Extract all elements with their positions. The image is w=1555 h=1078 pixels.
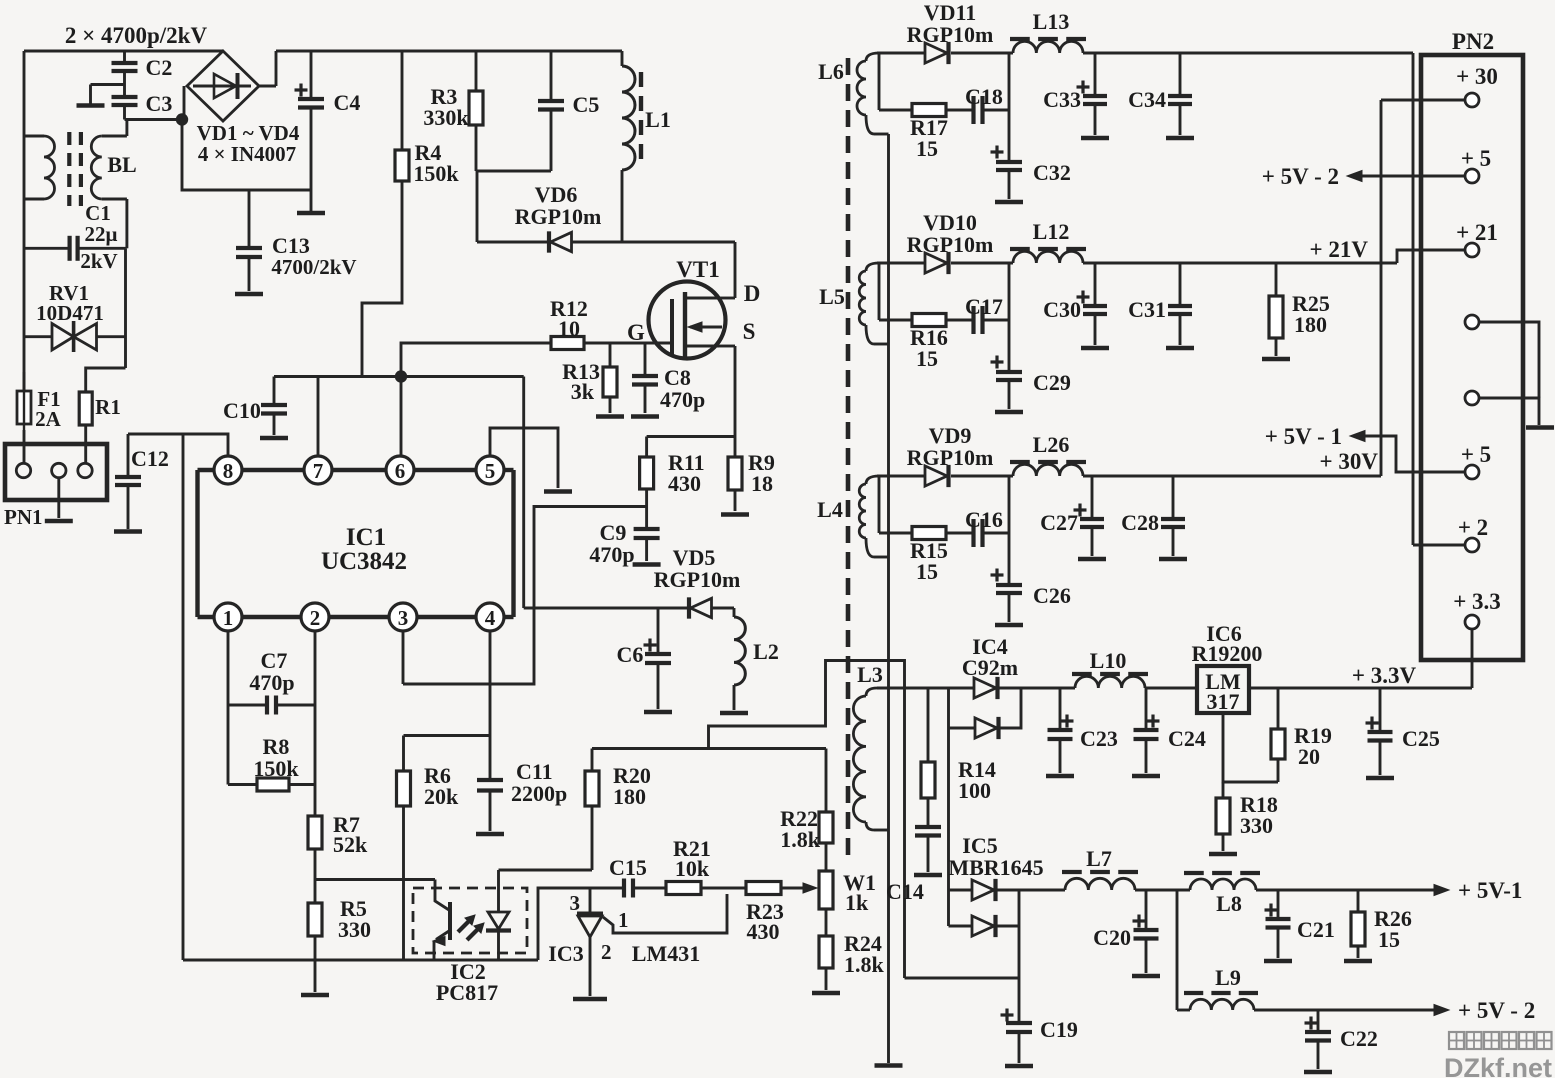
wire - rail2 +21V	[1083, 262, 1397, 265]
wire - hot ground rail	[183, 959, 538, 962]
terminal ground 1	[1465, 315, 1479, 329]
svg-text:+ 3.3: + 3.3	[1453, 589, 1501, 614]
pin 7	[304, 456, 332, 484]
capacitor C12	[127, 434, 130, 476]
diode VD9 RGP10m	[925, 466, 947, 486]
svg-text:5: 5	[485, 459, 496, 483]
resistor R23	[746, 882, 781, 895]
wire - left line rail	[23, 51, 26, 136]
svg-text:15: 15	[916, 559, 938, 584]
capacitor C28	[1172, 476, 1175, 519]
svg-text:180: 180	[613, 784, 646, 809]
capacitor C9	[634, 527, 660, 531]
capacitor C18 snubber	[971, 96, 975, 124]
inductor L2 aux winding	[733, 608, 736, 617]
inductor L12	[1010, 247, 1030, 251]
svg-text:330: 330	[338, 917, 371, 942]
svg-text:+ 2: + 2	[1458, 515, 1488, 540]
svg-text:4: 4	[485, 606, 496, 630]
svg-text:430: 430	[668, 471, 701, 496]
resistor R5	[308, 903, 322, 936]
capacitor C26 filter electrolytic	[991, 573, 1004, 576]
optocoupler IC2 PC817	[413, 888, 527, 953]
op-amp U1 - IC1 UC3842 box	[195, 470, 199, 617]
svg-text:3k: 3k	[571, 379, 595, 404]
svg-text:C26: C26	[1033, 583, 1071, 608]
resistor R25	[1275, 263, 1278, 296]
svg-text:+ 5V - 2: + 5V - 2	[1458, 998, 1535, 1023]
capacitor C25 electrolytic	[1379, 688, 1382, 732]
wire - +5V-1 output	[1256, 889, 1434, 892]
wire - +5V to C19 and divider feed	[905, 977, 1020, 980]
winding L6 secondary	[866, 53, 879, 61]
resistor R7	[314, 631, 317, 816]
winding L3 secondary	[866, 688, 877, 696]
svg-text:+ 5V - 2: + 5V - 2	[1262, 164, 1339, 189]
terminal ground 2	[1465, 391, 1479, 405]
diode VD10 RGP10m	[925, 253, 947, 273]
wire - LM317 adj	[1223, 713, 1278, 782]
capacitor C19 electrolytic	[1018, 978, 1021, 1023]
svg-text:7: 7	[313, 459, 324, 483]
svg-text:C24: C24	[1168, 726, 1206, 751]
svg-text:L12: L12	[1033, 219, 1070, 244]
svg-text:C92m: C92m	[962, 655, 1018, 680]
resistor R17 snubber	[878, 53, 881, 110]
diode VD5	[524, 607, 688, 610]
svg-text:317: 317	[1207, 689, 1240, 714]
svg-text:+ 3.3V: + 3.3V	[1352, 663, 1417, 688]
resistor R20	[591, 749, 594, 772]
wire - AC2 node to bridge	[125, 118, 183, 121]
diode VD6	[477, 241, 548, 244]
svg-text:C34: C34	[1128, 87, 1166, 112]
svg-text:IC3: IC3	[548, 941, 583, 966]
svg-text:C23: C23	[1080, 726, 1118, 751]
svg-text:L5: L5	[819, 284, 845, 309]
capacitor C8	[644, 343, 647, 375]
svg-text:PN2: PN2	[1452, 29, 1494, 54]
wire - rail1 to PN2	[1083, 52, 1413, 55]
svg-text:15: 15	[916, 136, 938, 161]
diode VD11 RGP10m	[925, 43, 947, 63]
capacitor C15	[622, 879, 626, 898]
wire - right line rail	[124, 248, 127, 368]
svg-text:10D471: 10D471	[36, 301, 104, 325]
resistor R12	[401, 343, 551, 377]
transistor VT1 MOSFET	[649, 282, 726, 359]
inductor L8	[1184, 871, 1204, 875]
svg-text:3: 3	[570, 891, 581, 915]
svg-text:D: D	[744, 281, 761, 306]
svg-text:L3: L3	[857, 662, 883, 687]
svg-text:150k: 150k	[253, 756, 299, 781]
svg-text:RGP10m: RGP10m	[654, 567, 741, 592]
svg-text:20k: 20k	[424, 784, 459, 809]
svg-text:18: 18	[751, 471, 773, 496]
svg-text:PC817: PC817	[436, 980, 498, 1005]
svg-text:C20: C20	[1093, 925, 1131, 950]
resistor R11	[645, 437, 648, 458]
transformer core dashed line	[846, 58, 851, 855]
svg-text:100: 100	[958, 778, 991, 803]
wire - source to R9/R11	[734, 346, 737, 437]
svg-text:R1: R1	[95, 395, 121, 419]
wire - Vref pin8	[128, 434, 228, 456]
svg-text:C12: C12	[131, 446, 169, 471]
capacitor C17 snubber	[971, 306, 975, 334]
svg-text:C29: C29	[1033, 370, 1071, 395]
wire - L6 output	[877, 52, 925, 55]
svg-text:+ 21V: + 21V	[1310, 237, 1369, 262]
resistor R3	[475, 51, 478, 91]
LED of optocoupler	[497, 870, 500, 912]
svg-text:470p: 470p	[660, 387, 705, 412]
capacitor C1	[125, 199, 128, 248]
svg-text:C4: C4	[334, 90, 361, 115]
svg-text:150k: 150k	[413, 161, 459, 186]
svg-text:2: 2	[310, 606, 321, 630]
pin 6	[386, 456, 414, 484]
svg-text:PN1: PN1	[4, 505, 43, 529]
svg-text:+ 21: + 21	[1456, 220, 1498, 245]
svg-text:4700/2kV: 4700/2kV	[271, 255, 356, 279]
wire - +5V-2 output	[1254, 1009, 1434, 1012]
connector PN1	[5, 444, 107, 500]
capacitor C33 electrolytic	[1094, 53, 1097, 96]
capacitor C32 filter electrolytic	[991, 150, 1004, 153]
resistor R16 snubber	[878, 263, 881, 320]
svg-text:+ 5V - 1: + 5V - 1	[1265, 424, 1342, 449]
svg-text:C15: C15	[609, 855, 647, 880]
wire - snubber to VD6	[476, 171, 479, 242]
svg-text:C28: C28	[1121, 510, 1159, 535]
svg-text:22μ: 22μ	[85, 222, 118, 246]
wire - snubber riser	[1008, 476, 1011, 585]
capacitor C6 electrolytic	[657, 608, 660, 653]
wire - collector wire from R7	[315, 878, 435, 881]
svg-text:DZkf.net: DZkf.net	[1444, 1053, 1552, 1078]
capacitor C2	[123, 51, 126, 62]
svg-text:RGP10m: RGP10m	[907, 22, 994, 47]
capacitor C16 snubber	[971, 519, 975, 547]
inductor L10	[1072, 672, 1092, 676]
wire - pin5 to ground	[490, 428, 558, 488]
svg-text:C21: C21	[1297, 917, 1335, 942]
inductor L7	[1062, 870, 1082, 874]
shunt regulator IC3 LM431	[589, 888, 592, 912]
diode IC4 second	[947, 688, 950, 926]
svg-text:4 × IN4007: 4 × IN4007	[198, 142, 296, 166]
wire - L3 output	[877, 687, 974, 690]
resistor R22	[825, 749, 828, 813]
svg-text:330: 330	[1240, 813, 1273, 838]
svg-text:R19200: R19200	[1192, 641, 1263, 666]
fuse F1	[23, 372, 26, 391]
svg-text:470p: 470p	[589, 542, 634, 567]
capacitor C14	[927, 798, 930, 827]
capacitor C34	[1179, 53, 1182, 96]
capacitor C20 electrolytic	[1145, 890, 1148, 930]
svg-text:+ 5: + 5	[1461, 442, 1491, 467]
svg-text:C19: C19	[1040, 1017, 1078, 1042]
svg-text:20: 20	[1298, 744, 1320, 769]
node - junction dot at bridge AC2	[176, 113, 188, 125]
wire - secondary common bus	[887, 134, 890, 1063]
wire - IC5 cathode riser	[1018, 890, 1021, 978]
wire - left ground drop	[182, 434, 185, 960]
svg-text:L7: L7	[1086, 846, 1112, 871]
svg-text:L2: L2	[753, 639, 779, 664]
svg-text:C33: C33	[1043, 87, 1081, 112]
svg-text:2A: 2A	[35, 407, 62, 431]
wire - snubber riser	[1008, 263, 1011, 372]
resistor R18	[1222, 782, 1225, 798]
svg-text:L13: L13	[1033, 9, 1070, 34]
svg-text:L10: L10	[1090, 648, 1127, 673]
wire - LED cathode to TL431	[538, 888, 624, 960]
svg-text:180: 180	[1294, 312, 1327, 337]
capacitor C4 electrolytic	[310, 51, 313, 98]
svg-text:C27: C27	[1040, 510, 1078, 535]
svg-text:15: 15	[1378, 927, 1400, 952]
pin 3	[389, 603, 417, 631]
svg-text:L26: L26	[1033, 432, 1070, 457]
svg-text:C25: C25	[1402, 726, 1440, 751]
resistor R26	[1357, 890, 1360, 912]
regulator IC6 LM317	[1197, 666, 1249, 713]
resistor R6	[402, 736, 405, 772]
potentiometer W1	[803, 883, 817, 893]
capacitor C21 electrolytic	[1277, 890, 1280, 919]
inductor L1 primary winding	[621, 51, 624, 66]
pin 4	[476, 603, 504, 631]
svg-text:10: 10	[558, 316, 580, 341]
resistor R13	[609, 343, 612, 367]
svg-text:8: 8	[223, 459, 234, 483]
inductor L26	[1010, 460, 1030, 464]
svg-text:470p: 470p	[249, 670, 294, 695]
pin 8	[214, 456, 242, 484]
svg-text:L9: L9	[1215, 965, 1241, 990]
wire - Vcc auxiliary riser	[522, 377, 525, 609]
svg-text:VT1: VT1	[676, 257, 719, 282]
svg-text:L1: L1	[645, 107, 671, 132]
svg-text:1.8k: 1.8k	[780, 827, 821, 852]
pin 2	[301, 603, 329, 631]
svg-text:S: S	[743, 319, 756, 344]
capacitor C24	[1145, 688, 1148, 730]
wire - L5 output	[877, 262, 925, 265]
svg-text:C30: C30	[1043, 297, 1081, 322]
wire - L4 output	[877, 475, 925, 478]
winding L5 secondary	[866, 263, 879, 271]
bridge rectifier VD1~VD4	[187, 51, 259, 121]
svg-text:L6: L6	[818, 59, 844, 84]
svg-text:430: 430	[747, 919, 780, 944]
svg-text:C16: C16	[965, 507, 1003, 532]
inductor L9	[1184, 991, 1203, 995]
svg-text:C3: C3	[146, 91, 173, 116]
svg-text:C17: C17	[965, 294, 1003, 319]
svg-text:10k: 10k	[675, 856, 710, 881]
earth stub of C2/C3 midpoint	[91, 83, 125, 86]
capacitor C23 electrolytic	[1059, 688, 1062, 730]
svg-text:+ 30: + 30	[1456, 64, 1498, 89]
svg-text:C10: C10	[223, 398, 261, 423]
capacitor C27 electrolytic	[1091, 476, 1094, 519]
svg-text:52k: 52k	[333, 832, 368, 857]
resistor R1	[86, 368, 126, 392]
wire - rail3 +30V	[1083, 475, 1381, 478]
svg-text:1: 1	[223, 606, 234, 630]
resistor R4	[401, 51, 404, 150]
svg-text:LM431: LM431	[632, 941, 700, 966]
svg-text:+ 30V: + 30V	[1320, 449, 1379, 474]
resistor R8	[257, 778, 289, 791]
capacitor C31	[1179, 263, 1182, 306]
winding L4 secondary	[866, 476, 879, 484]
svg-text:L8: L8	[1216, 891, 1242, 916]
pin 5	[476, 456, 504, 484]
svg-text:2kV: 2kV	[80, 249, 117, 273]
svg-text:G: G	[627, 320, 645, 345]
resistor R21	[666, 882, 701, 895]
capacitor C30 electrolytic	[1094, 263, 1097, 306]
svg-text:3: 3	[398, 606, 409, 630]
svg-text:IC1: IC1	[346, 524, 386, 551]
svg-text:1k: 1k	[845, 890, 869, 915]
wire - feedback top rail	[592, 747, 826, 750]
wire - Vcc rail to pin7	[274, 375, 524, 378]
wire - snubber riser	[1008, 53, 1011, 162]
svg-text:RGP10m: RGP10m	[515, 204, 602, 229]
capacitor C3	[112, 95, 138, 99]
wire - bridge minus rail	[182, 120, 311, 191]
resistor R15 snubber	[878, 476, 881, 533]
wire - L9 branch riser	[1176, 890, 1179, 1010]
svg-text:+ 5V-1: + 5V-1	[1458, 878, 1522, 903]
svg-text:C6: C6	[617, 642, 644, 667]
capacitor C7	[227, 631, 230, 785]
capacitor C5	[550, 51, 553, 100]
wire - 3.3V output rail	[1249, 687, 1472, 690]
resistor R14	[927, 688, 930, 762]
transformer BL common-mode choke	[24, 135, 44, 138]
wire - DC+ rail from bridge to L1	[276, 50, 622, 53]
svg-text:RGP10m: RGP10m	[907, 445, 994, 470]
connector PN2	[1421, 55, 1523, 660]
svg-text:330k: 330k	[423, 105, 469, 130]
svg-text:2 × 4700p/2kV: 2 × 4700p/2kV	[65, 23, 208, 48]
svg-text:BL: BL	[107, 152, 136, 177]
capacitor C13	[248, 190, 251, 247]
svg-text:RGP10m: RGP10m	[907, 232, 994, 257]
svg-text:C31: C31	[1128, 297, 1166, 322]
svg-text:1.8k: 1.8k	[844, 952, 885, 977]
svg-text:C5: C5	[573, 92, 600, 117]
svg-text:15: 15	[916, 346, 938, 371]
diode IC5 second	[949, 925, 973, 928]
svg-text:+ 5: + 5	[1461, 146, 1491, 171]
capacitor C22 electrolytic	[1317, 1010, 1320, 1032]
resistor R24	[825, 909, 828, 936]
svg-text:2: 2	[601, 940, 612, 964]
svg-text:C14: C14	[886, 879, 924, 904]
svg-text:L4: L4	[817, 497, 843, 522]
capacitor C10	[273, 377, 276, 405]
svg-text:C22: C22	[1340, 1026, 1378, 1051]
wire - AC top rail	[24, 50, 223, 53]
wire - pin4 timing	[489, 631, 492, 779]
svg-text:C32: C32	[1033, 160, 1071, 185]
varistor RV1	[52, 324, 74, 351]
svg-text:C18: C18	[965, 84, 1003, 109]
wire - current sense to pin3	[403, 507, 647, 685]
svg-text:MBR1645: MBR1645	[948, 855, 1043, 880]
svg-text:1: 1	[618, 908, 629, 932]
capacitor C29 filter electrolytic	[991, 360, 1004, 363]
svg-text:6: 6	[395, 459, 406, 483]
svg-text:C2: C2	[146, 55, 173, 80]
resistor R9	[734, 437, 737, 458]
wire - drain riser	[734, 242, 737, 298]
inductor L13	[1010, 37, 1030, 41]
capacitor C11	[477, 778, 503, 782]
resistor R19	[1277, 688, 1280, 729]
watermark	[1449, 1032, 1464, 1049]
svg-text:UC3842: UC3842	[321, 548, 407, 575]
pin 1	[214, 603, 242, 631]
svg-text:2200p: 2200p	[511, 781, 567, 806]
wire - pin6 riser	[400, 377, 403, 457]
